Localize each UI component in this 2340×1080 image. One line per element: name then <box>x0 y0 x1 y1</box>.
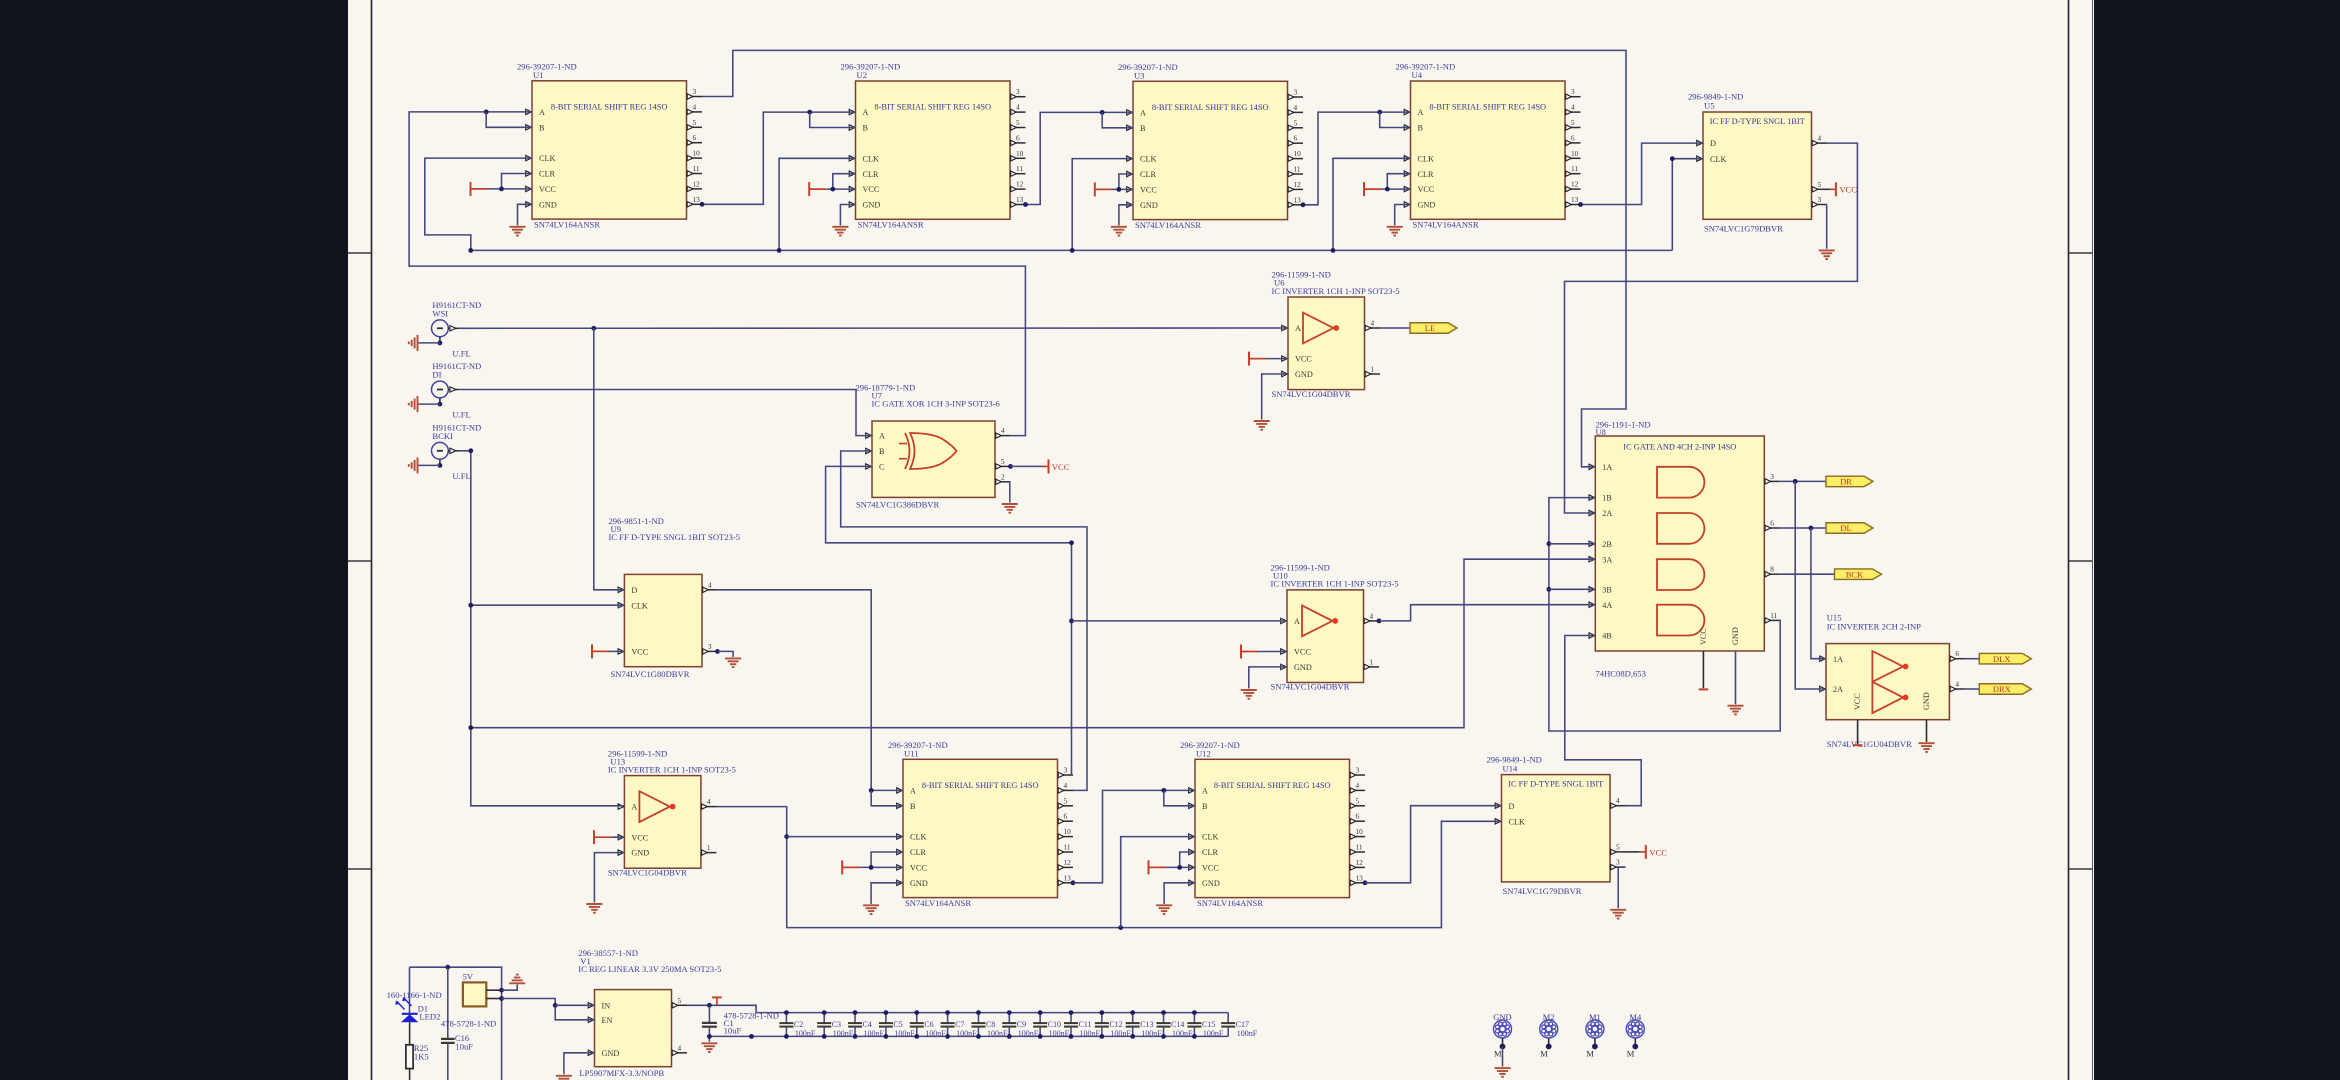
svg-text:GND: GND <box>910 879 928 888</box>
IC U9 D-type flip-flop body <box>624 574 702 666</box>
svg-text:IC INVERTER 2CH 2-INP: IC INVERTER 2CH 2-INP <box>1827 622 1921 632</box>
svg-text:CLK: CLK <box>1140 155 1156 164</box>
svg-text:U.FL: U.FL <box>452 410 470 420</box>
svg-text:SN74LVC1G04DBVR: SN74LVC1G04DBVR <box>1272 389 1351 399</box>
svg-text:LP5907MFX-3.3/NOPB: LP5907MFX-3.3/NOPB <box>579 1068 664 1078</box>
svg-text:B: B <box>1202 802 1208 811</box>
svg-text:4: 4 <box>1001 426 1005 435</box>
svg-text:M2: M2 <box>1543 1012 1555 1022</box>
svg-text:12: 12 <box>1356 858 1364 867</box>
wire U1.CLK stair to BCK bus <box>425 158 532 250</box>
svg-text:SN74LVC1G04DBVR: SN74LVC1G04DBVR <box>608 867 687 877</box>
svg-text:A: A <box>1295 324 1301 333</box>
svg-text:CLR: CLR <box>863 170 879 179</box>
svg-text:A: A <box>1294 617 1300 626</box>
svg-text:5: 5 <box>1571 118 1575 127</box>
svg-text:5: 5 <box>1294 118 1298 127</box>
port flag DR <box>1826 476 1873 487</box>
svg-text:100nF: 100nF <box>795 1029 816 1038</box>
svg-text:8-BIT SERIAL SHIFT REG 14SO: 8-BIT SERIAL SHIFT REG 14SO <box>551 102 668 111</box>
svg-text:VCC: VCC <box>863 185 880 194</box>
svg-text:U4: U4 <box>1412 70 1423 80</box>
shift register U2 body <box>856 81 1011 219</box>
svg-text:D: D <box>631 586 637 595</box>
svg-text:5: 5 <box>678 996 682 1005</box>
inverter U6 body <box>1288 297 1365 390</box>
wire U15 outputs to DLX DRX flags <box>1965 658 1979 660</box>
svg-text:A: A <box>1140 109 1146 118</box>
svg-text:DRX: DRX <box>1993 684 2011 694</box>
port flag DLX <box>1979 653 2031 664</box>
svg-text:B: B <box>539 123 545 132</box>
svg-text:IC GATE XOR 1CH 3-INP SOT23-6: IC GATE XOR 1CH 3-INP SOT23-6 <box>872 399 1001 409</box>
svg-text:CLK: CLK <box>1418 154 1434 163</box>
svg-text:VCC: VCC <box>1853 693 1862 710</box>
svg-text:IC INVERTER 1CH 1-INP SOT23-5: IC INVERTER 1CH 1-INP SOT23-5 <box>608 764 736 774</box>
wire U11.QH to U12.A/B <box>1071 880 1076 885</box>
svg-text:100nF: 100nF <box>1141 1029 1162 1038</box>
port flag LE <box>1410 323 1457 334</box>
svg-text:SN74LVC1G386DBVR: SN74LVC1G386DBVR <box>856 499 940 509</box>
svg-text:100nF: 100nF <box>1203 1029 1224 1038</box>
svg-text:IC REG LINEAR 3.3V 250MA SOT23: IC REG LINEAR 3.3V 250MA SOT23-5 <box>578 964 721 974</box>
svg-text:1K5: 1K5 <box>414 1051 429 1061</box>
U11 left pins <box>897 788 903 793</box>
svg-text:CLK: CLK <box>910 833 926 842</box>
U10 inverter triangle <box>1302 606 1332 637</box>
U6 inverter triangle <box>1303 313 1333 344</box>
svg-text:5: 5 <box>1356 796 1360 805</box>
U3 left pins <box>1127 110 1133 115</box>
svg-text:SN74LV164ANSR: SN74LV164ANSR <box>905 898 971 908</box>
wire U11.QB to U7.B <box>841 451 1087 790</box>
svg-text:8-BIT SERIAL SHIFT REG 14SO: 8-BIT SERIAL SHIFT REG 14SO <box>922 781 1039 790</box>
svg-text:4: 4 <box>1571 103 1575 112</box>
svg-text:IC FF D-TYPE SNGL 1BIT: IC FF D-TYPE SNGL 1BIT <box>1710 117 1805 126</box>
shift register U3 body <box>1133 81 1288 219</box>
svg-text:8: 8 <box>1770 565 1774 574</box>
svg-text:1: 1 <box>1371 365 1375 374</box>
svg-text:5: 5 <box>1616 842 1620 851</box>
svg-text:VCC: VCC <box>910 864 927 873</box>
capacitor C15 <box>1193 1013 1195 1023</box>
svg-text:GND: GND <box>1418 201 1436 210</box>
U7 pins <box>866 433 872 438</box>
U13 VCC bar <box>611 836 624 838</box>
svg-text:1: 1 <box>707 843 711 852</box>
svg-text:3: 3 <box>1016 87 1020 96</box>
svg-text:VCC: VCC <box>1699 628 1708 645</box>
U14 pins <box>1495 803 1501 808</box>
svg-text:3A: 3A <box>1602 555 1612 564</box>
capacitor C13 <box>1132 1013 1134 1023</box>
svg-text:4A: 4A <box>1602 601 1612 610</box>
svg-text:100nF: 100nF <box>1237 1029 1258 1038</box>
svg-text:CLR: CLR <box>1202 848 1218 857</box>
connector WSI (U.FL coax) <box>432 320 449 337</box>
svg-text:3: 3 <box>1294 88 1298 97</box>
svg-text:2: 2 <box>1001 472 1005 481</box>
wire GND rail under capacitors <box>709 1035 1228 1037</box>
svg-text:SN74LVC1G79DBVR: SN74LVC1G79DBVR <box>1704 224 1783 234</box>
BCKI shield to ground <box>439 459 441 465</box>
svg-text:VCC: VCC <box>1295 355 1312 364</box>
svg-text:2A: 2A <box>1833 685 1843 694</box>
svg-text:A: A <box>1418 108 1424 117</box>
svg-text:IC FF D-TYPE SNGL 1BIT: IC FF D-TYPE SNGL 1BIT <box>1508 780 1603 789</box>
svg-text:DL: DL <box>1840 523 1851 533</box>
svg-text:VCC: VCC <box>1202 864 1219 873</box>
svg-text:10: 10 <box>1571 149 1579 158</box>
port flag BCK <box>1835 569 1882 580</box>
svg-text:CLR: CLR <box>1418 170 1434 179</box>
WSI signal pin <box>448 327 459 329</box>
svg-text:IC INVERTER 1CH 1-INP SOT23-5: IC INVERTER 1CH 1-INP SOT23-5 <box>1271 579 1399 589</box>
U6 VCC bar <box>1266 358 1288 360</box>
svg-text:U12: U12 <box>1196 749 1211 759</box>
svg-text:CLK: CLK <box>1509 817 1525 826</box>
U14 pin3 ground <box>1618 867 1625 908</box>
svg-text:4: 4 <box>1064 781 1068 790</box>
wire U14.Q to U8.4B <box>1565 636 1641 806</box>
svg-text:100nF: 100nF <box>894 1029 915 1038</box>
U15 GND stem and ground <box>1926 720 1928 742</box>
wire U8.2Y to DL flag and U15.1A <box>1780 527 1826 529</box>
svg-text:GND: GND <box>602 1049 620 1058</box>
wire U12.QH to U14.D <box>1363 880 1368 885</box>
svg-text:296-39207-1-ND: 296-39207-1-ND <box>1118 62 1178 72</box>
svg-text:B: B <box>863 124 869 133</box>
wire 5V pin2 to V1.IN/EN <box>502 999 595 1020</box>
shift register U11 body <box>903 759 1058 897</box>
DI shield to ground <box>439 398 441 404</box>
svg-text:IN: IN <box>602 1001 611 1010</box>
svg-text:4: 4 <box>1616 796 1620 805</box>
port flag DL <box>1826 523 1873 534</box>
capacitor C7 <box>947 1013 949 1023</box>
U4 right pins <box>1565 96 1581 98</box>
svg-text:5: 5 <box>1064 796 1068 805</box>
svg-text:11: 11 <box>693 164 700 173</box>
U7 pin2 ground <box>1009 482 1012 503</box>
svg-text:GND: GND <box>1295 370 1313 379</box>
svg-text:GND: GND <box>1294 663 1312 672</box>
svg-text:13: 13 <box>1064 873 1072 882</box>
svg-text:CLK: CLK <box>539 154 555 163</box>
capacitor C16 <box>447 967 449 1039</box>
wire U4.QH to U5.D <box>1581 143 1704 204</box>
svg-text:3: 3 <box>708 642 712 651</box>
svg-text:4: 4 <box>1818 134 1822 143</box>
U1 right pins <box>687 96 703 98</box>
svg-text:3: 3 <box>693 87 697 96</box>
svg-text:SN74LV164ANSR: SN74LV164ANSR <box>1197 898 1263 908</box>
shift register U1 body <box>532 81 687 219</box>
svg-text:SN74LVC1G04DBVR: SN74LVC1G04DBVR <box>1271 682 1350 692</box>
svg-text:U8: U8 <box>1596 427 1606 437</box>
wire CLR/VCC tie with VCC power bar U12 <box>1180 852 1195 867</box>
wire U11.QA to U7.C and U10.A <box>826 466 1073 775</box>
svg-text:4: 4 <box>1955 680 1959 689</box>
svg-text:VCC: VCC <box>631 648 648 657</box>
flip-flop U5 body <box>1703 112 1812 219</box>
svg-text:SN74LVC1G79DBVR: SN74LVC1G79DBVR <box>1503 886 1582 896</box>
svg-text:U5: U5 <box>1704 101 1715 111</box>
port flag DRX <box>1979 684 2031 695</box>
U4 left pins <box>1404 109 1410 114</box>
svg-text:4: 4 <box>1294 103 1298 112</box>
WSI shield to ground <box>439 337 441 343</box>
svg-text:296-39207-1-ND: 296-39207-1-ND <box>517 62 577 72</box>
svg-text:100nF: 100nF <box>987 1029 1008 1038</box>
svg-text:GND: GND <box>863 201 881 210</box>
IC U15 dual inverter body <box>1826 644 1949 720</box>
svg-text:SN74LV164ANSR: SN74LV164ANSR <box>534 219 600 229</box>
wire branch to U12.CLK <box>1121 837 1195 928</box>
svg-text:CLK: CLK <box>631 601 647 610</box>
svg-text:VCC: VCC <box>1649 847 1667 857</box>
mounting hole M2 <box>1540 1020 1558 1038</box>
BCKI signal pin <box>448 450 459 452</box>
svg-text:VCC: VCC <box>1052 462 1070 472</box>
capacitor C12 <box>1101 1013 1103 1023</box>
capacitor C2 <box>785 1013 787 1023</box>
svg-text:6: 6 <box>1955 649 1959 658</box>
svg-text:5V: 5V <box>463 972 474 982</box>
svg-text:296-18779-1-ND: 296-18779-1-ND <box>856 382 916 392</box>
capacitor C11 <box>1070 1013 1072 1023</box>
mounting hole GND <box>1494 1020 1512 1038</box>
capacitor C5 <box>885 1013 887 1023</box>
capacitor C14 <box>1163 1013 1165 1023</box>
svg-text:A: A <box>879 432 885 441</box>
svg-text:CLR: CLR <box>1140 170 1156 179</box>
svg-text:EN: EN <box>602 1016 613 1025</box>
wire branch to U11.CLK <box>787 836 903 838</box>
wire WSI to U6.A and U9.D <box>459 327 1288 329</box>
svg-text:GND: GND <box>539 200 557 209</box>
svg-text:4: 4 <box>708 580 712 589</box>
svg-text:VCC: VCC <box>1418 185 1435 194</box>
svg-text:U1: U1 <box>533 70 544 80</box>
svg-text:1A: 1A <box>1602 463 1612 472</box>
svg-text:5: 5 <box>1001 457 1005 466</box>
shift register U12 body <box>1195 759 1350 897</box>
wire GND drop with ground symbol U2 <box>840 205 855 226</box>
svg-text:D: D <box>1710 139 1716 148</box>
svg-text:B: B <box>879 447 885 456</box>
svg-text:D: D <box>1509 802 1515 811</box>
svg-text:10: 10 <box>693 149 701 158</box>
svg-text:B: B <box>1140 124 1146 133</box>
wire 5V pin1 to inverted ground <box>502 985 518 991</box>
svg-text:U14: U14 <box>1503 763 1519 773</box>
svg-text:12: 12 <box>1016 180 1024 189</box>
DI signal pin <box>448 389 459 391</box>
svg-text:VCC: VCC <box>1840 185 1858 195</box>
svg-text:296-39207-1-ND: 296-39207-1-ND <box>841 62 901 72</box>
svg-text:U.FL: U.FL <box>452 471 470 481</box>
U12 left pins <box>1189 788 1195 793</box>
wire CLR/VCC tie with VCC power bar U11 <box>871 852 903 867</box>
wire GND drop with ground symbol U1 <box>518 204 533 225</box>
svg-text:A: A <box>910 787 916 796</box>
U3 right pins <box>1288 96 1304 98</box>
svg-text:GND: GND <box>1140 201 1158 210</box>
svg-text:100nF: 100nF <box>1049 1029 1070 1038</box>
svg-text:CLK: CLK <box>1710 155 1726 164</box>
svg-text:8-BIT SERIAL SHIFT REG 14SO: 8-BIT SERIAL SHIFT REG 14SO <box>874 103 991 112</box>
svg-text:100nF: 100nF <box>833 1029 854 1038</box>
svg-text:B: B <box>910 802 916 811</box>
mounting hole M4 <box>1626 1020 1644 1038</box>
svg-text:CLR: CLR <box>910 848 926 857</box>
svg-text:M: M <box>1540 1049 1548 1059</box>
svg-text:M: M <box>1627 1049 1635 1059</box>
U13 GND drop <box>594 853 624 903</box>
svg-text:3: 3 <box>1356 766 1360 775</box>
svg-text:5: 5 <box>1818 180 1822 189</box>
wire U6 output to LE flag <box>1380 327 1410 329</box>
U8 AND gate glyphs <box>1657 467 1704 498</box>
svg-text:DR: DR <box>1840 477 1852 487</box>
svg-text:1B: 1B <box>1602 494 1612 503</box>
IC U7 XOR gate body <box>872 421 995 497</box>
svg-text:BCK: BCK <box>1846 569 1864 579</box>
U8 right pins <box>1764 480 1780 482</box>
resistor R25 <box>409 1022 411 1045</box>
wire U10 output to U8.4A <box>1377 619 1382 624</box>
svg-text:100nF: 100nF <box>1018 1029 1039 1038</box>
svg-text:LED2: LED2 <box>419 1012 440 1022</box>
wire CLR/VCC tie with VCC power bar U2 <box>833 174 856 189</box>
svg-text:10: 10 <box>1356 827 1364 836</box>
svg-text:VCC: VCC <box>1140 186 1157 195</box>
svg-text:M4: M4 <box>1629 1012 1642 1022</box>
svg-text:2A: 2A <box>1602 509 1612 518</box>
svg-text:M: M <box>1494 1049 1502 1059</box>
U8 GND stem and ground <box>1735 651 1737 704</box>
wire U4.CLK riser <box>1333 158 1411 250</box>
connector BCKI (U.FL coax) <box>432 442 449 459</box>
U9 pin3 ground <box>715 649 720 654</box>
IC V1 voltage regulator body <box>595 990 672 1067</box>
svg-text:GND: GND <box>1731 627 1740 645</box>
U6 pins <box>1282 325 1288 330</box>
svg-text:SN74LV164ANSR: SN74LV164ANSR <box>1135 220 1201 230</box>
svg-text:12: 12 <box>693 179 701 188</box>
wire U5.Q to U8.2A <box>1565 143 1858 513</box>
V1 GND to ground <box>564 1053 595 1075</box>
svg-text:74HC08D,653: 74HC08D,653 <box>1596 669 1646 679</box>
svg-text:3B: 3B <box>1602 585 1612 594</box>
U14 VCC bar at pin 5 <box>1626 851 1640 853</box>
capacitor C4 <box>854 1013 856 1023</box>
svg-text:13: 13 <box>1571 195 1579 204</box>
U5 pin3 ground <box>1826 205 1828 249</box>
wire CLR/VCC tie with VCC power bar U1 <box>502 174 533 189</box>
U2 right pins <box>1010 96 1026 98</box>
U6 GND drop <box>1262 374 1288 420</box>
wire GND drop with ground symbol U12 <box>1164 883 1195 904</box>
svg-text:100nF: 100nF <box>1110 1029 1131 1038</box>
wire U3.CLK riser <box>1072 159 1133 251</box>
svg-text:4: 4 <box>678 1043 682 1052</box>
svg-text:SN74LVC1GU04DBVR: SN74LVC1GU04DBVR <box>1827 739 1912 749</box>
svg-text:U11: U11 <box>904 749 918 759</box>
U13 pins <box>618 804 624 809</box>
U7 pin5 VCC <box>1008 464 1013 469</box>
svg-text:1A: 1A <box>1833 655 1843 664</box>
wire 5V rail <box>410 967 502 1080</box>
inverter U10 body <box>1287 590 1364 683</box>
svg-text:100nF: 100nF <box>956 1029 977 1038</box>
svg-text:VCC: VCC <box>539 185 556 194</box>
connector DI (U.FL coax) <box>432 381 449 398</box>
svg-text:IC INVERTER 1CH 1-INP SOT23-5: IC INVERTER 1CH 1-INP SOT23-5 <box>1272 286 1400 296</box>
capacitor C1 <box>708 1005 710 1023</box>
wire U9.Q to U11.A/B <box>718 590 904 791</box>
svg-text:DLX: DLX <box>1993 654 2010 664</box>
wire U1.QH to U2.A/B <box>702 112 856 204</box>
inverter U13 body <box>624 776 701 869</box>
svg-text:11: 11 <box>1294 165 1301 174</box>
svg-text:11: 11 <box>1571 164 1578 173</box>
mounting hole M1 <box>1586 1020 1604 1038</box>
wire GND drop with ground symbol U4 <box>1395 205 1411 226</box>
mounting hole ground wire <box>1502 1047 1504 1067</box>
svg-text:A: A <box>1202 787 1208 796</box>
svg-text:100nF: 100nF <box>1172 1029 1193 1038</box>
svg-text:3: 3 <box>1064 766 1068 775</box>
wire BCKI vertical distribution <box>459 451 625 806</box>
svg-text:4: 4 <box>693 102 697 111</box>
svg-text:4: 4 <box>1371 319 1375 328</box>
wire U5.CLK riser <box>1672 159 1703 251</box>
svg-text:LE: LE <box>1425 323 1435 333</box>
svg-text:4: 4 <box>1370 611 1374 620</box>
flip-flop U14 body <box>1502 775 1611 882</box>
svg-text:100nF: 100nF <box>1080 1029 1101 1038</box>
svg-text:10: 10 <box>1016 149 1024 158</box>
U13 inverter triangle <box>639 791 669 822</box>
U10 pins <box>1281 618 1287 623</box>
U15 inverter glyphs <box>1872 651 1903 682</box>
svg-text:4: 4 <box>1016 103 1020 112</box>
svg-text:8-BIT SERIAL SHIFT REG 14SO: 8-BIT SERIAL SHIFT REG 14SO <box>1214 781 1331 790</box>
U12 right pins <box>1350 774 1366 776</box>
wire U7 output to U1.A/B <box>409 112 1025 436</box>
wire GND drop with ground symbol U11 <box>871 883 903 904</box>
svg-text:A: A <box>863 108 869 117</box>
U9 pins <box>618 587 624 592</box>
svg-text:5: 5 <box>693 118 697 127</box>
wire U2.QH to U3.A/B <box>1026 112 1134 204</box>
svg-text:6: 6 <box>1571 133 1575 142</box>
capacitor C3 <box>823 1013 825 1023</box>
svg-text:GND: GND <box>1202 879 1220 888</box>
svg-text:U.FL: U.FL <box>452 349 470 359</box>
U15 VCC stem and bar <box>1857 720 1859 744</box>
svg-text:6: 6 <box>1294 134 1298 143</box>
svg-text:6: 6 <box>1016 133 1020 142</box>
U1 left pins <box>526 109 532 114</box>
svg-text:6: 6 <box>1770 519 1774 528</box>
svg-text:U3: U3 <box>1134 71 1145 81</box>
wire V1 output 3V3 rail <box>687 1005 1228 1012</box>
svg-text:IC FF D-TYPE SNGL 1BIT SOT23-5: IC FF D-TYPE SNGL 1BIT SOT23-5 <box>609 532 741 542</box>
svg-text:11: 11 <box>1064 843 1071 852</box>
